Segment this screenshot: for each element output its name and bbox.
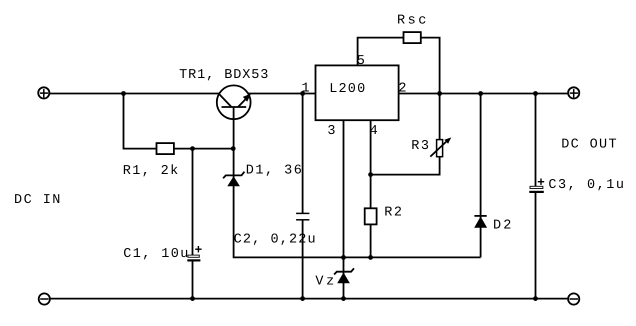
capacitor C2 xyxy=(296,94,309,299)
resistor Rsc xyxy=(404,32,421,43)
diode D2 xyxy=(474,94,487,258)
terminal input plus xyxy=(38,87,49,98)
wire pin 5 to Rsc xyxy=(358,38,404,66)
svg-text:R3: R3 xyxy=(411,139,429,154)
node junction bottom C2 xyxy=(300,296,305,301)
terminal output plus xyxy=(568,87,579,98)
terminal input minus xyxy=(39,293,50,304)
resistor R3 variable xyxy=(371,94,452,175)
node junction output rail C3 xyxy=(533,91,538,96)
diode Vz zener xyxy=(334,268,354,283)
wire pin 3 vertical xyxy=(343,120,345,298)
svg-text:DC IN: DC IN xyxy=(14,193,60,208)
svg-text:C1, 10u: C1, 10u xyxy=(123,247,188,262)
svg-text:Rsc: Rsc xyxy=(397,14,426,29)
wire D1 vertical and bottom corner xyxy=(234,149,481,258)
wire R1 branch xyxy=(124,94,234,149)
capacitor C1 xyxy=(187,149,201,299)
terminal output minus xyxy=(568,293,579,304)
node junction bottom C1 xyxy=(190,296,195,301)
node junction pin3 bottom rail xyxy=(341,296,346,301)
svg-text:L200: L200 xyxy=(329,82,365,97)
capacitor C3 xyxy=(529,94,544,299)
svg-text:C2, 0,22u: C2, 0,22u xyxy=(234,232,316,247)
svg-text:TR1, BDX53: TR1, BDX53 xyxy=(179,68,268,83)
wire top input rail xyxy=(49,93,220,95)
resistor R1 xyxy=(157,143,174,154)
svg-text:R2: R2 xyxy=(384,206,402,221)
wire output rail pin 2 xyxy=(399,93,569,95)
node junction pin1 wire C2 branch xyxy=(300,91,305,96)
wire transistor to pin 1 xyxy=(248,93,316,95)
wire bottom rail xyxy=(50,298,569,300)
node junction output rail Rsc/R3 xyxy=(437,91,442,96)
node junction R2 W1 xyxy=(368,255,373,260)
svg-text:1: 1 xyxy=(302,82,310,97)
resistor R2 xyxy=(365,208,377,224)
node junction R1 C1 xyxy=(190,146,195,151)
node junction R1 D1 xyxy=(231,146,236,151)
node junction pin3 W1 xyxy=(341,255,346,260)
svg-text:3: 3 xyxy=(327,124,335,139)
wire R2 to W1 xyxy=(370,224,372,257)
svg-text:C3, 0,1u: C3, 0,1u xyxy=(548,178,624,193)
node junction input rail R1 branch xyxy=(121,91,126,96)
wire pin 4 vertical xyxy=(370,120,372,208)
diode D1 zener xyxy=(223,172,244,187)
node junction pin4 R3 xyxy=(368,172,373,177)
wire Rsc to output rail xyxy=(421,38,440,94)
node junction bottom C3 xyxy=(533,296,538,301)
transistor TR1 xyxy=(217,85,251,148)
node junction output rail D2 xyxy=(478,91,483,96)
op-amp U1 L200 box xyxy=(316,65,399,120)
